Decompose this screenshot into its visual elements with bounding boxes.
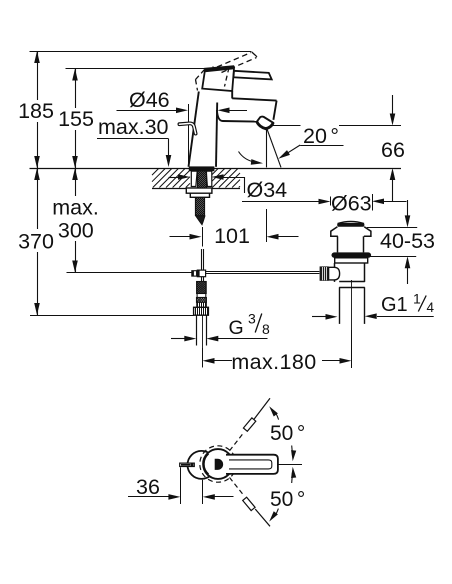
rod below tee [202,277,204,282]
waste body sides [335,263,365,282]
66 dim bottom arrow [390,168,396,201]
svg-text:185: 185 [18,99,54,123]
G3/8 arrows [171,336,268,342]
label 40-53 [380,229,435,253]
top view lever [226,455,278,474]
waste tailpipe [340,287,365,324]
label 36 [136,475,160,499]
svg-text:Ø46: Ø46 [129,88,170,112]
svg-text:1: 1 [413,291,421,307]
tee fitting [192,270,206,277]
max300 bottom line / pull rod left [67,272,193,274]
waste cap band [337,223,364,227]
pop-up pull rod knob [179,123,195,133]
spout outlet level extension line [273,125,402,127]
66 dim top arrow [390,95,396,126]
spout [217,91,277,122]
label upper 50deg [270,422,305,445]
faucet body left edge [189,92,199,167]
label dia34 [247,178,288,202]
water stream vertical [266,129,268,167]
shank flange nut [186,188,212,193]
hose connector [192,294,216,303]
label 155 [58,107,94,131]
dia46 right arrow [218,108,248,114]
top view cartridge notch [215,459,222,469]
water stream 20deg slant [267,129,281,167]
svg-text:max.180: max.180 [231,350,316,374]
top view handle circle [203,449,233,479]
waste upper band [335,258,368,263]
pull rod vertical [202,249,204,270]
label 20deg [303,124,339,148]
36 dim arrows [128,494,234,500]
waste cap dome [338,221,364,223]
svg-text:155: 155 [58,107,94,131]
svg-text:66: 66 [381,138,405,162]
max180 left ext [202,348,204,367]
svg-text:G1: G1 [381,294,408,316]
flow arc arrow [239,152,264,166]
G1 1/4 leader [312,313,434,319]
label G3/8 [229,311,271,340]
svg-text:101: 101 [214,224,250,248]
dia34 underline to dia63 arrow [242,199,331,205]
waste plug neck [338,236,364,252]
40-53 top arrow [405,200,411,227]
cone washer right [206,171,212,186]
36 ext line right [202,480,204,504]
label max.30 [98,115,169,139]
supply pipe axis [202,315,204,367]
40-53 top ext [367,227,417,229]
upper 50deg dashed lever position [230,398,271,451]
waste body bottom joint [339,282,365,288]
dia63 ext ticks [331,194,373,211]
connector ridges [197,302,207,307]
top view centerline [278,464,302,466]
label dia46 [129,88,170,112]
36 ext line left [180,467,182,504]
handle housing top cap [204,67,234,70]
top view dashed swivel circle [200,446,236,482]
dia46 left arrow [117,108,189,114]
spout beak / aerator [257,117,273,129]
370 bottom line [30,315,194,317]
svg-text:50°: 50° [270,488,305,511]
label 300 [58,219,94,243]
max180 right ext [351,330,353,368]
extension line top of spout body (155 ref) [66,68,206,70]
lower 50deg dashed lever position [230,478,271,527]
cone washer left [191,171,197,186]
20deg leader [277,145,344,161]
svg-text:36: 36 [136,475,160,499]
axis segment below tail [202,227,204,247]
svg-text:50°: 50° [270,422,305,445]
lower 50deg arc arrows [267,467,296,524]
label 66 [381,138,405,162]
tail taper tip [196,216,205,225]
waste knurled knob [320,266,329,280]
waste knob cap [329,267,340,280]
top view cap seam arc [204,454,209,474]
waste plug skirt [331,227,371,237]
top view aerator stub [180,463,195,466]
label max.180 [231,350,316,374]
upper 50deg arc arrows [267,405,296,462]
deck surface line [30,168,402,170]
waste seal ring [332,252,372,257]
dia63 right arrow [372,199,407,205]
top view body circle [188,451,216,479]
label dia63 [331,191,372,215]
svg-text:G: G [229,317,244,339]
pull rod horizontal to waste [206,272,320,274]
label 185 [18,99,54,123]
handle housing [202,68,234,91]
dimension 155/max300 vertical line x=75 [72,69,78,273]
svg-text:40-53: 40-53 [380,229,435,253]
max180 dim line [203,358,352,364]
dimension 185/370 vertical line x=37 [34,51,40,315]
svg-text:8: 8 [262,321,270,337]
label max. [52,195,99,219]
svg-text:max.30: max.30 [98,115,169,139]
label 101 [214,224,250,248]
101 right arrow [267,234,299,240]
shank nut step [190,193,209,197]
dia34 right arrow [212,174,245,193]
svg-text:4: 4 [427,300,435,315]
extension line top of lever (185 ref) [30,51,252,53]
label G1 1/4 [381,291,435,317]
dia46 left extension line [188,104,190,165]
svg-text:20°: 20° [303,124,339,148]
waste axis [351,280,353,368]
check valve nut [194,307,209,315]
threaded tail [177,197,242,216]
flex hose braid [185,282,229,294]
dashed lever raised position [196,52,258,91]
40-53 bottom ext [368,256,416,258]
deck slab right hatch [212,169,241,189]
svg-text:max.: max. [52,195,99,219]
svg-text:3: 3 [248,311,256,327]
svg-text:Ø34: Ø34 [247,178,288,202]
101 extension line [266,209,268,242]
faucet body right edge [216,103,217,167]
threaded shank in hole [180,171,240,189]
40-53 bottom arrow [405,256,411,284]
dia34 left arrow [169,174,191,180]
lever arm [234,71,272,80]
faucet base band [189,166,215,171]
101 left arrow [170,234,202,240]
label 370 [18,230,54,254]
svg-text:300: 300 [58,219,94,243]
svg-text:Ø63: Ø63 [331,191,372,215]
supply pipe G3/8 [197,315,207,345]
svg-text:370: 370 [18,230,54,254]
label lower 50deg [270,488,305,511]
max.30 leader [97,139,171,168]
deck slab left hatch [152,169,190,189]
